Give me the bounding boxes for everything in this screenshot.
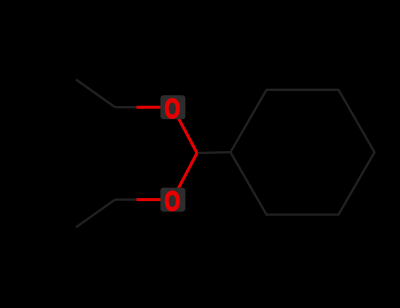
svg-text:O: O — [165, 94, 181, 125]
atom O1 label box — [160, 95, 185, 119]
wire O1-CH2a red half — [137, 106, 173, 109]
wire O1-CH2a dark half — [115, 106, 137, 108]
wire O2-CH2b red half — [137, 198, 173, 201]
wire O2-CH2b dark half — [115, 198, 137, 200]
wire CH2b-CH3b — [76, 200, 115, 228]
atom O2 label box — [160, 188, 185, 212]
svg-text:O: O — [165, 186, 181, 217]
wire C1-O1 red — [173, 107, 198, 153]
cyclohexane ring — [231, 90, 375, 215]
wire C1-ring — [197, 151, 231, 154]
wire C1-O2 red — [173, 153, 198, 200]
wire CH2a-CH3a — [76, 80, 115, 108]
